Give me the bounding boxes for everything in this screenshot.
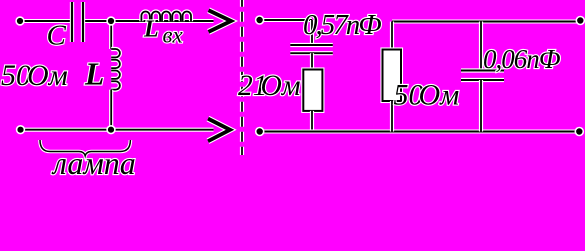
brace under lamp section <box>40 140 130 156</box>
inductor Lvx coil humps <box>141 11 191 21</box>
svg-text:L: L <box>84 57 104 92</box>
port dot right-circuit top-right <box>576 17 584 25</box>
capacitor 0.06pF bottom lead <box>479 80 483 132</box>
capacitor 0.57pF plates <box>290 45 333 53</box>
svg-text:вх: вх <box>163 23 184 48</box>
resistor 21 Om box <box>303 70 322 111</box>
wire: top rail right of capacitor C <box>83 19 214 23</box>
right network top rail <box>392 19 580 23</box>
port dot right-circuit bottom-right <box>575 128 583 136</box>
wire: left bottom rail <box>21 128 214 132</box>
svg-text:0,06пФ: 0,06пФ <box>483 44 561 74</box>
port dot right-circuit top-left <box>256 16 264 24</box>
right circuit: wire from top-left dot <box>260 18 312 22</box>
arrow top port <box>209 10 232 32</box>
node dot bottom-center <box>107 126 115 134</box>
arrow bottom port <box>208 119 230 142</box>
capacitor C plates <box>72 2 83 42</box>
svg-text:50Ом: 50Ом <box>394 78 460 111</box>
capacitor 0.06pF top lead <box>479 22 483 71</box>
resistor 50 Om bottom lead <box>390 101 394 132</box>
resistor 50 Om top lead <box>390 22 394 50</box>
series branch lead down to capacitor <box>310 20 314 45</box>
inductor L bottom lead <box>109 90 113 130</box>
svg-text:лампа: лампа <box>51 145 136 181</box>
node dot top-left <box>16 17 24 25</box>
lead capacitor to resistor <box>310 53 314 69</box>
inductor L vertical: top lead <box>109 21 113 49</box>
node dot top-center <box>107 17 115 25</box>
svg-text:50Ом: 50Ом <box>1 59 68 92</box>
resistor 50 Om box <box>383 50 402 102</box>
capacitor 0.06pF plates <box>461 71 504 81</box>
lead resistor to bottom rail <box>310 111 314 132</box>
svg-text:21Ом: 21Ом <box>238 70 301 102</box>
port dot right-circuit bottom-left <box>256 128 264 136</box>
svg-text:L: L <box>143 17 159 43</box>
dashed boundary line <box>240 0 244 155</box>
node dot bottom-left <box>17 126 25 134</box>
right circuit bottom rail <box>260 129 580 133</box>
wire: left top rail <box>20 19 72 23</box>
svg-text:0,57пФ: 0,57пФ <box>303 9 381 41</box>
svg-text:C: C <box>47 20 67 52</box>
inductor L coil <box>111 49 120 90</box>
